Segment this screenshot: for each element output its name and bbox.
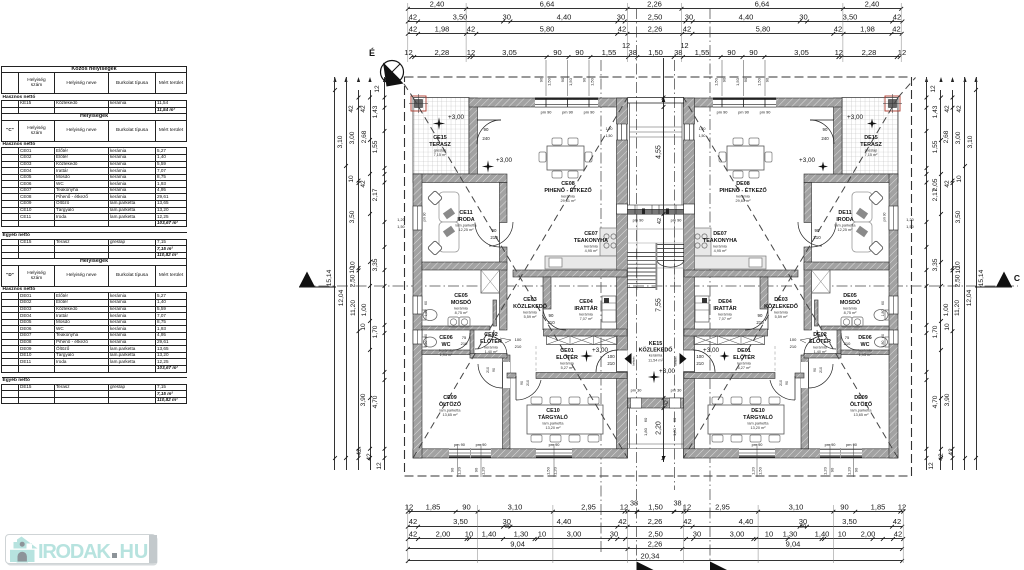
- svg-text:42: 42: [944, 180, 951, 188]
- svg-text:lam.parketta: lam.parketta: [440, 408, 462, 412]
- svg-text:kerámia: kerámia: [813, 345, 827, 349]
- svg-text:8,75 m²: 8,75 m²: [455, 311, 469, 315]
- svg-text:1,50: 1,50: [568, 77, 573, 86]
- svg-text:90: 90: [840, 502, 848, 511]
- svg-text:2,68: 2,68: [361, 130, 368, 143]
- svg-text:kerámia: kerámia: [484, 345, 498, 349]
- svg-text:2,20: 2,20: [656, 421, 663, 435]
- svg-text:20,34: 20,34: [640, 551, 659, 560]
- svg-text:3,35: 3,35: [372, 258, 379, 271]
- svg-text:12: 12: [404, 48, 412, 57]
- svg-text:90: 90: [749, 48, 757, 57]
- svg-text:42: 42: [683, 25, 691, 34]
- svg-text:6,64: 6,64: [540, 0, 555, 9]
- svg-text:CE05: CE05: [454, 293, 468, 299]
- svg-text:IRATTÁR: IRATTÁR: [713, 305, 736, 312]
- svg-text:1,00: 1,00: [943, 303, 950, 316]
- svg-text:DE15: DE15: [864, 135, 878, 141]
- svg-text:3,50: 3,50: [843, 12, 858, 21]
- svg-text:80: 80: [800, 524, 806, 530]
- svg-text:pm 30: pm 30: [631, 388, 643, 393]
- svg-text:10: 10: [765, 530, 773, 539]
- svg-text:12: 12: [898, 48, 906, 57]
- svg-text:1,50: 1,50: [648, 502, 663, 511]
- svg-text:DE02: DE02: [813, 332, 827, 338]
- svg-text:10: 10: [956, 175, 963, 183]
- svg-text:210: 210: [515, 344, 522, 349]
- svg-text:2,26: 2,26: [648, 517, 663, 526]
- svg-text:240: 240: [482, 136, 490, 141]
- svg-text:pm 90: pm 90: [584, 110, 596, 115]
- svg-text:1,50: 1,50: [606, 134, 613, 138]
- svg-text:CE08: CE08: [561, 181, 575, 187]
- svg-text:7,07 m²: 7,07 m²: [580, 317, 594, 321]
- svg-text:kerámia: kerámia: [561, 194, 575, 198]
- svg-text:pm 90: pm 90: [541, 110, 553, 115]
- svg-text:IRODA: IRODA: [836, 217, 853, 223]
- svg-text:1,30: 1,30: [783, 530, 798, 539]
- svg-text:42: 42: [893, 517, 901, 526]
- svg-text:ÖLTÖZŐ: ÖLTÖZŐ: [850, 401, 872, 408]
- svg-text:4,40: 4,40: [557, 12, 572, 21]
- svg-text:7,55: 7,55: [656, 298, 663, 312]
- svg-text:DE06: DE06: [858, 335, 872, 341]
- svg-text:KÖZLEKEDŐ: KÖZLEKEDŐ: [764, 303, 798, 310]
- svg-text:10: 10: [348, 175, 355, 183]
- svg-text:DE04: DE04: [718, 299, 732, 305]
- svg-text:10: 10: [465, 530, 473, 539]
- svg-text:kerámia: kerámia: [560, 361, 574, 365]
- svg-text:60: 60: [424, 301, 428, 305]
- svg-text:2,68: 2,68: [943, 130, 950, 143]
- svg-text:TEAKONYHA: TEAKONYHA: [574, 238, 608, 244]
- svg-text:9,04: 9,04: [786, 539, 801, 548]
- svg-text:38: 38: [630, 498, 638, 507]
- svg-text:kerámia: kerámia: [439, 348, 453, 352]
- svg-text:12: 12: [835, 48, 843, 57]
- svg-text:2,26: 2,26: [647, 0, 662, 9]
- svg-text:1,80: 1,80: [424, 310, 428, 317]
- svg-text:1,98: 1,98: [860, 25, 875, 34]
- svg-text:+3,00: +3,00: [659, 368, 675, 375]
- svg-text:11,54 m²: 11,54 m²: [648, 359, 663, 363]
- svg-text:3,50: 3,50: [842, 517, 857, 526]
- svg-text:60: 60: [881, 301, 885, 305]
- svg-text:210: 210: [526, 380, 530, 386]
- svg-text:lam.parketta: lam.parketta: [748, 421, 770, 425]
- svg-text:4,70: 4,70: [932, 395, 939, 408]
- svg-text:+3,00: +3,00: [448, 114, 464, 121]
- svg-text:10: 10: [360, 323, 367, 331]
- svg-text:kerámia: kerámia: [736, 194, 750, 198]
- svg-text:kerámia: kerámia: [649, 354, 663, 358]
- svg-text:1,20: 1,20: [906, 218, 913, 222]
- svg-text:7,15 m²: 7,15 m²: [865, 153, 879, 157]
- svg-text:pm 90: pm 90: [717, 110, 729, 115]
- svg-text:CE11: CE11: [459, 210, 472, 216]
- svg-text:42: 42: [360, 180, 367, 188]
- svg-text:75: 75: [462, 335, 467, 340]
- svg-text:1,55: 1,55: [372, 140, 379, 153]
- svg-text:DE09: DE09: [854, 395, 868, 401]
- svg-text:+3,00: +3,00: [496, 157, 512, 164]
- svg-text:90: 90: [539, 77, 544, 82]
- svg-text:42: 42: [409, 12, 417, 21]
- svg-text:5,59 m²: 5,59 m²: [524, 315, 538, 319]
- svg-text:1,55: 1,55: [602, 48, 617, 57]
- svg-text:90: 90: [758, 313, 763, 318]
- svg-text:lam.parketta: lam.parketta: [851, 408, 873, 412]
- svg-text:11,20: 11,20: [954, 300, 961, 316]
- svg-text:1,50: 1,50: [546, 466, 551, 475]
- svg-text:+3,00: +3,00: [592, 347, 608, 354]
- svg-text:2,17: 2,17: [372, 188, 379, 201]
- svg-text:3,50: 3,50: [453, 517, 468, 526]
- svg-text:CE10: CE10: [546, 408, 560, 414]
- svg-text:210: 210: [813, 235, 821, 240]
- svg-text:pm 90: pm 90: [760, 110, 772, 115]
- svg-text:kerámia: kerámia: [523, 310, 537, 314]
- svg-text:TERASZ: TERASZ: [429, 142, 451, 148]
- svg-text:3,90: 3,90: [360, 393, 367, 406]
- svg-text:4,95 m²: 4,95 m²: [585, 249, 599, 253]
- svg-text:42: 42: [894, 530, 902, 539]
- svg-text:1,50: 1,50: [758, 466, 763, 475]
- svg-text:210: 210: [844, 341, 851, 346]
- svg-text:2,50: 2,50: [350, 274, 357, 287]
- svg-text:DE01: DE01: [737, 348, 751, 354]
- svg-text:210: 210: [607, 361, 615, 366]
- svg-text:2,50: 2,50: [648, 12, 663, 21]
- svg-text:WC: WC: [861, 342, 870, 348]
- svg-text:90: 90: [854, 467, 859, 472]
- svg-text:1,85: 1,85: [426, 502, 441, 511]
- svg-text:pm 90: pm 90: [633, 218, 645, 223]
- svg-text:210: 210: [696, 361, 704, 366]
- svg-text:210: 210: [486, 367, 490, 373]
- svg-text:3,00: 3,00: [730, 530, 745, 539]
- svg-text:2,50: 2,50: [955, 274, 962, 287]
- svg-text:29,61 m²: 29,61 m²: [561, 199, 577, 203]
- svg-text:1,93 m²: 1,93 m²: [859, 353, 873, 357]
- svg-text:1,80: 1,80: [881, 341, 885, 348]
- svg-text:90: 90: [785, 381, 789, 385]
- svg-text:+3,00: +3,00: [703, 347, 719, 354]
- svg-text:1,50: 1,50: [397, 225, 404, 229]
- svg-text:1,50: 1,50: [590, 77, 595, 86]
- svg-text:TERASZ: TERASZ: [860, 142, 882, 148]
- svg-text:12,04: 12,04: [966, 289, 973, 306]
- svg-text:IRATTÁR: IRATTÁR: [574, 305, 597, 312]
- svg-text:90: 90: [492, 368, 496, 372]
- svg-text:CE04: CE04: [579, 299, 593, 305]
- svg-text:210: 210: [790, 344, 797, 349]
- svg-text:5,59 m²: 5,59 m²: [775, 315, 789, 319]
- svg-text:lam.parketta: lam.parketta: [835, 223, 857, 227]
- svg-text:42: 42: [409, 25, 417, 34]
- svg-text:kerámia: kerámia: [584, 244, 598, 248]
- svg-text:1,00: 1,00: [361, 303, 368, 316]
- svg-text:210: 210: [461, 341, 468, 346]
- svg-text:42: 42: [356, 448, 363, 456]
- svg-text:3,00: 3,00: [349, 131, 356, 144]
- svg-text:MOSDÓ: MOSDÓ: [840, 298, 860, 306]
- svg-text:1,70: 1,70: [932, 325, 939, 338]
- svg-text:15,14: 15,14: [326, 269, 333, 286]
- svg-text:42: 42: [366, 453, 373, 461]
- svg-text:+3,00: +3,00: [847, 114, 863, 121]
- svg-text:90: 90: [582, 77, 587, 82]
- svg-text:4,70: 4,70: [372, 395, 379, 408]
- svg-text:pm 90: pm 90: [671, 218, 683, 223]
- svg-text:CE15: CE15: [433, 135, 447, 141]
- svg-text:1,50: 1,50: [906, 225, 913, 229]
- svg-text:30: 30: [685, 12, 693, 21]
- svg-text:2,50: 2,50: [648, 530, 663, 539]
- svg-text:12,25 m²: 12,25 m²: [838, 228, 854, 232]
- svg-text:1,40 m²: 1,40 m²: [485, 350, 499, 354]
- svg-text:3,05: 3,05: [794, 48, 809, 57]
- svg-text:5,27 m²: 5,27 m²: [738, 366, 752, 370]
- svg-text:1,50: 1,50: [757, 77, 762, 86]
- svg-text:CE02: CE02: [484, 332, 498, 338]
- svg-text:7,15 m²: 7,15 m²: [434, 153, 448, 157]
- svg-text:12: 12: [405, 502, 413, 511]
- svg-text:80: 80: [505, 524, 511, 530]
- svg-text:DE10: DE10: [751, 408, 765, 414]
- svg-text:pm 90: pm 90: [423, 212, 427, 221]
- svg-text:1,50: 1,50: [699, 134, 706, 138]
- svg-text:3,00: 3,00: [955, 131, 962, 144]
- svg-text:belépés: belépés: [632, 356, 636, 366]
- svg-text:100: 100: [515, 337, 522, 342]
- svg-text:90: 90: [575, 48, 583, 57]
- svg-text:12: 12: [930, 85, 937, 93]
- svg-text:pm 30: pm 30: [671, 388, 683, 393]
- svg-text:1,98: 1,98: [435, 25, 450, 34]
- svg-text:3,50: 3,50: [955, 210, 962, 223]
- svg-text:1,20: 1,20: [606, 127, 613, 131]
- svg-text:38: 38: [673, 498, 681, 507]
- svg-text:1,43: 1,43: [372, 105, 379, 118]
- svg-text:100: 100: [696, 354, 704, 359]
- svg-text:30: 30: [617, 12, 625, 21]
- svg-text:pm 90: pm 90: [846, 442, 858, 447]
- svg-text:DE05: DE05: [843, 293, 857, 299]
- svg-text:CE01: CE01: [560, 348, 574, 354]
- svg-text:3,35: 3,35: [932, 258, 939, 271]
- svg-text:pm 90: pm 90: [825, 442, 837, 447]
- svg-text:90: 90: [553, 48, 561, 57]
- svg-text:4,95 m²: 4,95 m²: [714, 249, 728, 253]
- svg-text:3,10: 3,10: [789, 502, 804, 511]
- svg-text:PIHENŐ - ÉTKEZŐ: PIHENŐ - ÉTKEZŐ: [719, 186, 766, 194]
- svg-text:12: 12: [898, 502, 906, 511]
- svg-text:11,20: 11,20: [350, 300, 357, 316]
- svg-text:greslap: greslap: [434, 148, 446, 152]
- svg-text:3,50: 3,50: [349, 210, 356, 223]
- svg-text:30: 30: [610, 530, 618, 539]
- svg-text:60: 60: [643, 417, 648, 422]
- svg-text:30: 30: [502, 12, 510, 21]
- svg-text:1,43: 1,43: [932, 105, 939, 118]
- svg-text:ÖLTÖZŐ: ÖLTÖZŐ: [439, 401, 461, 408]
- svg-text:13,65 m²: 13,65 m²: [443, 413, 459, 417]
- svg-text:kerámia: kerámia: [454, 306, 468, 310]
- svg-text:210: 210: [756, 320, 764, 325]
- svg-text:2,28: 2,28: [435, 48, 450, 57]
- svg-text:4,40: 4,40: [557, 517, 572, 526]
- svg-text:3,05: 3,05: [502, 48, 517, 57]
- svg-text:CE03: CE03: [523, 297, 537, 303]
- svg-text:1,80: 1,80: [424, 341, 428, 348]
- svg-text:12: 12: [928, 462, 935, 470]
- svg-text:90: 90: [450, 467, 455, 472]
- svg-text:12: 12: [620, 502, 628, 511]
- svg-text:1,20: 1,20: [751, 466, 756, 475]
- svg-text:42: 42: [409, 530, 417, 539]
- svg-text:90: 90: [813, 368, 817, 372]
- svg-text:1,50: 1,50: [648, 48, 663, 57]
- svg-text:90: 90: [560, 77, 565, 82]
- svg-text:1,50: 1,50: [714, 77, 719, 86]
- svg-text:3,50: 3,50: [453, 12, 468, 21]
- svg-text:1,93 m²: 1,93 m²: [440, 353, 454, 357]
- svg-text:2,40: 2,40: [865, 0, 880, 9]
- svg-text:2,26: 2,26: [648, 539, 663, 548]
- svg-text:4,40: 4,40: [739, 517, 754, 526]
- svg-text:4,40: 4,40: [739, 12, 754, 21]
- svg-text:DE03: DE03: [774, 297, 788, 303]
- svg-text:90: 90: [474, 467, 479, 472]
- svg-text:3,10: 3,10: [508, 502, 523, 511]
- svg-text:1,50: 1,50: [547, 77, 552, 86]
- svg-text:12: 12: [376, 462, 383, 470]
- svg-text:IRODAK: IRODAK: [38, 541, 111, 563]
- svg-text:42: 42: [664, 400, 670, 406]
- svg-text:KÖZLEKEDŐ: KÖZLEKEDŐ: [513, 303, 547, 310]
- svg-text:13,20 m²: 13,20 m²: [751, 426, 767, 430]
- svg-text:1,20: 1,20: [699, 127, 706, 131]
- svg-text:C: C: [1014, 273, 1020, 283]
- svg-text:8,75 m²: 8,75 m²: [844, 311, 858, 315]
- svg-text:1,40: 1,40: [482, 530, 497, 539]
- svg-text:90: 90: [520, 381, 524, 385]
- svg-text:10: 10: [944, 323, 951, 331]
- svg-text:1,80: 1,80: [881, 310, 885, 317]
- svg-text:kerámia: kerámia: [718, 312, 732, 316]
- svg-text:lam.parketta: lam.parketta: [456, 223, 478, 227]
- svg-text:1,55: 1,55: [695, 48, 710, 57]
- svg-text:TEAKONYHA: TEAKONYHA: [703, 238, 737, 244]
- svg-text:2,00: 2,00: [436, 530, 451, 539]
- svg-text:210: 210: [490, 235, 498, 240]
- svg-text:29,61 m²: 29,61 m²: [736, 199, 752, 203]
- svg-text:10: 10: [955, 266, 962, 274]
- svg-text:5,27 m²: 5,27 m²: [561, 366, 575, 370]
- svg-text:42: 42: [360, 105, 367, 113]
- svg-text:6,64: 6,64: [755, 0, 770, 9]
- svg-text:42: 42: [409, 517, 417, 526]
- svg-text:42: 42: [834, 25, 842, 34]
- svg-text:kerámia: kerámia: [737, 361, 751, 365]
- svg-text:10: 10: [838, 530, 846, 539]
- svg-text:3,90: 3,90: [944, 393, 951, 406]
- svg-text:12: 12: [683, 502, 691, 511]
- svg-text:12: 12: [374, 85, 381, 93]
- svg-text:WC: WC: [442, 342, 451, 348]
- svg-text:240: 240: [821, 136, 829, 141]
- svg-text:kerámia: kerámia: [843, 306, 857, 310]
- svg-text:1,20: 1,20: [457, 466, 462, 475]
- svg-text:2,05: 2,05: [932, 178, 939, 191]
- svg-text:90: 90: [484, 127, 489, 132]
- svg-text:42: 42: [683, 517, 691, 526]
- svg-text:1,80: 1,80: [672, 427, 677, 436]
- svg-text:13,20 m²: 13,20 m²: [546, 426, 562, 430]
- svg-text:TÁRGYALÓ: TÁRGYALÓ: [538, 413, 568, 421]
- svg-text:pm 90: pm 90: [562, 110, 574, 115]
- svg-text:pm 90: pm 90: [549, 442, 561, 447]
- svg-text:210: 210: [779, 380, 783, 386]
- svg-text:pm 90: pm 90: [454, 442, 466, 447]
- svg-text:belépés: belépés: [674, 356, 678, 366]
- svg-text:1,70: 1,70: [372, 325, 379, 338]
- svg-text:3,00: 3,00: [567, 530, 582, 539]
- svg-text:90: 90: [815, 228, 820, 233]
- svg-text:2,28: 2,28: [862, 48, 877, 57]
- svg-text:42: 42: [467, 25, 475, 34]
- svg-text:42: 42: [618, 25, 626, 34]
- svg-text:1,85: 1,85: [871, 502, 886, 511]
- svg-text:DE08: DE08: [736, 181, 750, 187]
- svg-text:42: 42: [938, 453, 945, 461]
- svg-text:7,07 m²: 7,07 m²: [719, 317, 733, 321]
- svg-text:1,40 m²: 1,40 m²: [814, 350, 828, 354]
- svg-text:42: 42: [618, 517, 626, 526]
- svg-text:kerámia: kerámia: [774, 310, 788, 314]
- svg-text:kerámia: kerámia: [858, 348, 872, 352]
- svg-text:2,40: 2,40: [430, 0, 445, 9]
- svg-text:60: 60: [424, 334, 428, 338]
- svg-text:42: 42: [948, 448, 955, 456]
- svg-text:2,26: 2,26: [648, 25, 663, 34]
- svg-text:kerámia: kerámia: [579, 312, 593, 316]
- svg-text:1,30: 1,30: [514, 530, 529, 539]
- svg-text:kerámia: kerámia: [713, 244, 727, 248]
- svg-text:1,20: 1,20: [553, 466, 558, 475]
- svg-text:210: 210: [547, 320, 555, 325]
- svg-text:3,10: 3,10: [967, 135, 974, 148]
- svg-text:DE07: DE07: [713, 231, 727, 237]
- svg-text:42: 42: [944, 105, 951, 113]
- svg-text:pm 90: pm 90: [476, 442, 488, 447]
- svg-text:60: 60: [881, 334, 885, 338]
- svg-text:9,04: 9,04: [510, 539, 525, 548]
- svg-text:90: 90: [727, 48, 735, 57]
- svg-text:75: 75: [845, 335, 850, 340]
- svg-text:42: 42: [893, 12, 901, 21]
- svg-text:42: 42: [348, 105, 355, 113]
- svg-text:KE15: KE15: [649, 341, 663, 347]
- svg-text:greslap: greslap: [865, 148, 877, 152]
- svg-text:12: 12: [467, 48, 475, 57]
- svg-text:5,80: 5,80: [756, 25, 771, 34]
- svg-text:42: 42: [956, 105, 963, 113]
- svg-text:100: 100: [607, 354, 615, 359]
- svg-text:+3,00: +3,00: [799, 157, 815, 164]
- svg-text:ELŐTÉR: ELŐTÉR: [480, 337, 502, 345]
